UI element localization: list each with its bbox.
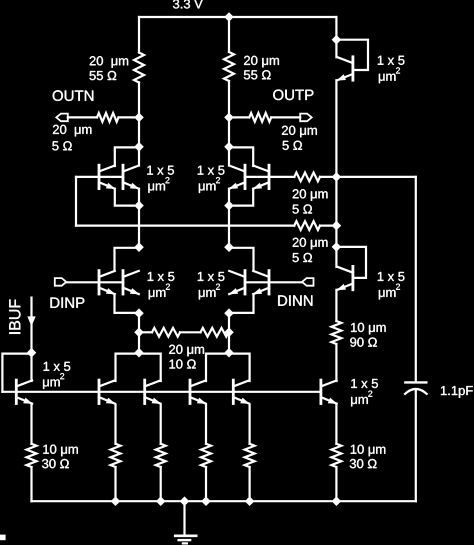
wire R1 to OUTN node and Q1/Q2 collectors xyxy=(138,83,140,166)
wire shared base of Q3/Q4 to resistor R5 xyxy=(245,176,294,178)
label Q9 size line2 xyxy=(43,373,64,389)
wire ground stub xyxy=(183,501,185,535)
label R12 value line2 xyxy=(42,459,69,468)
node OUTP tap junction xyxy=(224,113,234,123)
label Q3 size line2 xyxy=(199,177,220,193)
junction degeneration tap right xyxy=(224,328,234,338)
wire R12 to ground rail xyxy=(30,467,32,501)
junction on 3.3V rail at OUTP branch xyxy=(224,12,234,22)
label Q15 size line2 xyxy=(379,67,400,83)
wire Q9 collector stub xyxy=(30,353,32,381)
transistor Q11 (mirror, OUTN tail) xyxy=(145,380,162,404)
resistor R1 (20 um / 55 ohm) xyxy=(134,53,144,83)
wire R11 to Q17 collector xyxy=(335,344,337,381)
net label OUTN xyxy=(53,90,94,101)
net label IBUF (rotated) xyxy=(9,300,20,334)
label R11 value line2 xyxy=(350,338,377,347)
junction R17 / ground rail xyxy=(332,496,342,506)
label R1 value line1 xyxy=(90,56,128,68)
resistor R13 (10 um / 30 ohm) xyxy=(111,444,121,467)
wire Q1 emitter down to shared node xyxy=(115,189,139,206)
wire R5 to junction and right corner xyxy=(320,176,416,178)
wire cross line down to capacitor C1 xyxy=(415,177,417,382)
wire node B emitter to degeneration tap xyxy=(228,313,230,353)
wire Q15 collector stub xyxy=(335,40,337,58)
junction collectors of Q7/Q8 xyxy=(224,242,234,252)
label Q17 size line2 xyxy=(351,391,372,407)
label R11 value line1 xyxy=(351,323,386,335)
transistor Q5 (1x5 um2 input, DINP) xyxy=(99,271,116,295)
wire Q15 emitter down bias line xyxy=(335,80,337,177)
wire DINP to Q5/Q6 bases xyxy=(66,281,123,283)
resistor R7 (20 um / 10 ohm) degeneration xyxy=(152,328,180,337)
wire Q16 emitter to resistor R11 xyxy=(335,290,337,321)
wire Q15 base tie loop xyxy=(336,40,368,70)
wire bias line C between cross resistors xyxy=(335,177,337,247)
wire 3.3V rail to resistor R1 xyxy=(138,17,140,53)
label R6 value line1 xyxy=(293,238,328,250)
wire top 3.3V rail xyxy=(139,16,336,18)
wire shared base of Q1/Q2 xyxy=(76,176,123,178)
label Q17 size line1 xyxy=(351,379,378,388)
transistor Q2 (1x5 um2 cascode, OUTN side) xyxy=(123,165,140,189)
resistor R6 (20 um / 5 ohm) cross-coupling lower xyxy=(294,221,320,230)
label R2 value line1 xyxy=(244,56,279,68)
resistor R17 (10 um / 30 ohm) xyxy=(331,444,341,467)
junction emitters of Q7/Q8 xyxy=(224,308,234,318)
wire 3.3V rail drop to Q15 xyxy=(335,17,337,40)
label Q16 size line2 xyxy=(379,284,400,300)
transistor Q6 (1x5 um2 input, DINP) xyxy=(123,271,140,295)
junction R5 / bias line C xyxy=(332,172,342,182)
wire R14 to ground rail xyxy=(160,467,162,501)
wire Q17 emitter to resistor R17 xyxy=(335,405,337,444)
junction emitters of Q5/Q6 xyxy=(134,308,144,318)
wire R4 to OUTP port xyxy=(271,116,300,118)
wire Q11 emitter to resistor R14 xyxy=(160,405,162,444)
label R5 value line2 xyxy=(293,204,313,213)
wire Q12 emitter to resistor R15 xyxy=(205,405,207,444)
stray mark (cropped figure fragment at bottom-left) xyxy=(0,535,6,541)
node OUTN tap junction xyxy=(134,113,144,123)
label Q5 size line2 xyxy=(149,284,170,300)
label R7/R8 value line2 xyxy=(170,359,196,368)
label R3 value line2 xyxy=(52,141,72,150)
label R7/R8 value line1 xyxy=(169,345,204,357)
wire Q5 collector up to node xyxy=(115,248,140,271)
label R4 value line1 xyxy=(282,126,317,138)
label R17 value line1 xyxy=(351,445,386,457)
wire R2 to OUTP node and Q3/Q4 collectors xyxy=(228,81,230,166)
wire cross-coupling lower from Q1/Q2 bases xyxy=(76,225,294,227)
label Q7 size line1 xyxy=(198,272,225,281)
wire R6 to bias line C xyxy=(320,225,336,227)
port OUTN (output, tip left) xyxy=(56,114,68,122)
transistor Q15 (1x5 um2 diode-connected, top) xyxy=(336,57,353,81)
wire node A emitter to degeneration tap xyxy=(138,313,140,353)
ground symbol xyxy=(174,536,198,544)
wire R13 to ground rail xyxy=(114,467,116,501)
wire Q8 collector up to node xyxy=(229,248,254,271)
label Q5 size line1 xyxy=(148,272,175,281)
resistor R15 (10 um / 30 ohm) xyxy=(201,444,211,467)
wire ground rail xyxy=(32,500,416,502)
junction node collector/base tie of Q15 xyxy=(332,35,342,45)
wire Q13 collector to node B xyxy=(229,354,250,381)
label Q1 size line1 xyxy=(147,166,174,175)
port DINN (input, tip left) xyxy=(302,278,314,286)
resistor R16 (10 um / 30 ohm) xyxy=(245,444,255,467)
wire IBUF current input line xyxy=(30,298,32,353)
port DINP (input, tip right) xyxy=(55,278,67,286)
transistor Q7 (1x5 um2 input, DINN) xyxy=(229,271,246,295)
junction R15 / ground rail xyxy=(201,496,211,506)
resistor R4 (20 um / 5 ohm) in OUTP lead xyxy=(249,113,271,122)
wire OUTN port to resistor R3 xyxy=(68,116,97,118)
transistor Q16 (1x5 um2 diode-connected, middle) xyxy=(336,266,353,290)
resistor R8 (20 um / 10 ohm) degeneration xyxy=(201,328,229,337)
wire R15 to ground rail xyxy=(205,467,207,501)
wire R17 to ground rail xyxy=(335,467,337,501)
wire node B lower segment xyxy=(228,189,230,248)
wire Q16 collector stub xyxy=(335,247,337,267)
label R6 value line2 xyxy=(293,253,313,262)
junction collectors of Q5/Q6 xyxy=(134,242,144,252)
label R12 value line1 xyxy=(43,445,78,457)
wire between R7 and R8 xyxy=(180,331,201,333)
label R3 value line1 xyxy=(53,125,91,137)
transistor Q12 (mirror, OUTP tail) xyxy=(190,380,207,404)
junction Q16 collector/base tie xyxy=(332,242,342,252)
junction degeneration tap left xyxy=(134,328,144,338)
transistor Q1 (1x5 um2 cascode, OUTN side) xyxy=(99,165,116,189)
wire node A lower segment xyxy=(138,189,140,248)
transistor Q8 (1x5 um2 input, DINN) xyxy=(253,271,270,295)
label Q15 size line1 xyxy=(378,56,405,65)
net label DINN xyxy=(278,295,312,305)
transistor Q10 (mirror, OUTN tail) xyxy=(99,380,116,404)
resistor R11 (10 um / 90 ohm) xyxy=(331,321,341,344)
junction R13 / ground rail xyxy=(111,496,121,506)
wire Q10 emitter to resistor R13 xyxy=(114,405,116,444)
junction collectors of Q3/Q4 xyxy=(224,142,234,152)
resistor R2 (20 um / 55 ohm) xyxy=(224,52,234,81)
label R5 value line1 xyxy=(293,189,328,201)
transistor Q17 (1x5 um2 mirror, bias chain) xyxy=(321,380,338,404)
wire mirror base bus xyxy=(2,391,321,393)
wire Q1/Q2 base drop to cross-coupling xyxy=(75,177,77,226)
label Q3 size line1 xyxy=(198,166,225,175)
wire Q13 emitter to resistor R16 xyxy=(249,405,251,444)
wire Q16 base tie loop xyxy=(336,247,366,278)
wire Q9 emitter to resistor R12 xyxy=(30,405,32,444)
net label 3.3 V supply xyxy=(173,0,203,8)
wire DINN to Q7/Q8 bases xyxy=(245,281,302,283)
label Q1 size line2 xyxy=(148,177,169,193)
label Q9 size line1 xyxy=(44,362,71,371)
arrow IBUF current direction xyxy=(27,316,35,326)
capacitor C1 (1.1 pF) xyxy=(404,382,427,394)
transistor Q3 (1x5 um2 cascode, OUTP side) xyxy=(229,165,246,189)
junction R16 / ground rail xyxy=(245,496,255,506)
junction R14 / ground rail xyxy=(156,496,166,506)
junction R6 / bias line C xyxy=(332,221,342,231)
resistor R3 (20 um / 5 ohm) in OUTN lead xyxy=(97,113,119,122)
junction IBUF / Q9 collector-base xyxy=(27,348,37,358)
junction mirror collectors right xyxy=(224,348,234,358)
wire Q4 collector up to node B top xyxy=(229,147,253,166)
label Q7 size line2 xyxy=(199,284,220,300)
junction ground stub / rail xyxy=(180,496,190,506)
label Q16 size line1 xyxy=(378,272,405,281)
wire Q5 emitter down to shared node xyxy=(115,294,140,313)
label R2 value line2 xyxy=(244,70,271,79)
wire node A to resistor R7 xyxy=(139,331,152,333)
transistor Q9 (1x5 um2 diode-connected mirror) xyxy=(16,380,33,404)
wire Q8 emitter down to shared node xyxy=(229,294,254,313)
wire 3.3V rail to resistor R2 xyxy=(228,17,230,52)
wire node B to resistor R4 xyxy=(229,116,249,118)
wire R16 to ground rail xyxy=(249,467,251,501)
label R17 value line2 xyxy=(350,459,377,468)
wire Q10 collector to node A xyxy=(116,354,140,381)
wire capacitor C1 to ground rail xyxy=(415,390,417,502)
wire Q9 base tie loop xyxy=(2,354,31,392)
wire Q11 collector to node A xyxy=(139,354,161,381)
wire Q4 emitter down to shared node xyxy=(229,189,253,206)
transistor Q13 (mirror, OUTP tail) xyxy=(233,380,250,404)
label R4 value line2 xyxy=(283,141,303,150)
wire Q12 collector to node B xyxy=(206,354,229,381)
net label DINP xyxy=(51,298,85,308)
resistor R14 (10 um / 30 ohm) xyxy=(156,444,166,467)
resistor R5 (20 um / 5 ohm) cross-coupling upper xyxy=(294,173,320,182)
junction mirror collectors left xyxy=(134,348,144,358)
junction collectors of Q1/Q2 xyxy=(134,142,144,152)
wire R3 to node A xyxy=(119,116,140,118)
junction emitters of Q1/Q2 xyxy=(134,201,144,211)
wire Q1 collector up to node A top xyxy=(115,147,139,166)
junction emitters of Q3/Q4 xyxy=(224,201,234,211)
port OUTP (output, tip right) xyxy=(300,114,312,122)
label C1 value xyxy=(441,386,473,398)
resistor R12 (10 um / 30 ohm) xyxy=(27,444,37,467)
label R1 value line2 xyxy=(90,71,117,80)
net label OUTP xyxy=(273,90,313,101)
transistor Q4 (1x5 um2 cascode, OUTP side) xyxy=(253,165,270,189)
